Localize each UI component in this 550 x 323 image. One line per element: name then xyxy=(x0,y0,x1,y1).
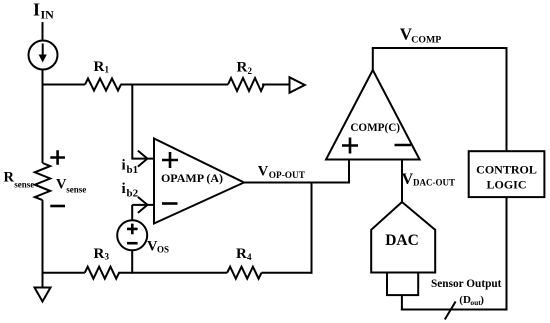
resistor R2 xyxy=(228,78,264,91)
wire: control logic down to sensor output xyxy=(506,197,508,310)
wire: feedback vertical (Vop-out to R4) xyxy=(311,182,313,274)
output arrow (buffer triangle) xyxy=(290,77,305,93)
svg-text:R: R xyxy=(4,170,15,186)
wire: opamp output xyxy=(244,182,349,184)
svg-text:Sensor Output: Sensor Output xyxy=(431,278,502,290)
svg-text:(D: (D xyxy=(459,294,471,306)
svg-text:V: V xyxy=(258,163,269,179)
wire: DAC output down xyxy=(401,295,403,310)
wire: Vos top to opamp - input xyxy=(132,205,154,222)
polarity minus (V_sense) xyxy=(50,205,65,208)
wire: R1 junction down to opamp + input xyxy=(132,84,154,159)
wire: sensor output bus xyxy=(401,309,508,311)
svg-text:I: I xyxy=(33,0,40,20)
DAC xyxy=(371,202,435,295)
arrow ib1 xyxy=(138,151,148,167)
svg-text:): ) xyxy=(480,294,484,306)
wire: comparator output xyxy=(372,48,374,71)
svg-text:V: V xyxy=(402,171,414,188)
polarity plus (V_sense) xyxy=(50,150,65,165)
svg-text:sense: sense xyxy=(66,185,86,195)
svg-text:1: 1 xyxy=(105,65,110,75)
svg-text:DAC: DAC xyxy=(385,232,419,249)
svg-text:DAC-OUT: DAC-OUT xyxy=(413,178,455,188)
svg-text:2: 2 xyxy=(248,66,253,76)
wire: top rail xyxy=(42,84,290,86)
wire: Rsense to bottom rail xyxy=(42,200,44,274)
svg-text:IN: IN xyxy=(41,8,55,22)
current source I_IN xyxy=(29,41,58,70)
resistor R4 xyxy=(227,267,261,279)
svg-text:COMP: COMP xyxy=(411,34,441,45)
bus slash xyxy=(445,302,456,320)
wire: current source to top rail junction, down to Rsense xyxy=(42,70,44,164)
svg-text:LOGIC: LOGIC xyxy=(486,177,526,191)
svg-text:CONTROL: CONTROL xyxy=(476,163,537,177)
svg-text:OP-OUT: OP-OUT xyxy=(269,171,306,181)
comparator C xyxy=(326,70,420,160)
svg-text:OS: OS xyxy=(157,245,169,255)
svg-text:i: i xyxy=(122,158,126,174)
wire: V_COMP to control logic xyxy=(372,48,507,152)
ground xyxy=(35,273,51,302)
svg-text:COMP(C): COMP(C) xyxy=(350,122,400,134)
svg-text:OPAMP (A): OPAMP (A) xyxy=(161,171,223,185)
wire: comparator minus input to DAC xyxy=(401,159,403,204)
svg-text:b2: b2 xyxy=(127,188,139,200)
wire: label to current source xyxy=(42,22,44,41)
wire: bottom rail xyxy=(43,272,313,274)
resistor R1 xyxy=(85,79,121,91)
svg-text:3: 3 xyxy=(105,251,110,261)
resistor R3 xyxy=(85,267,119,279)
control logic box xyxy=(469,151,545,197)
voltage source VOS xyxy=(117,220,147,250)
svg-text:i: i xyxy=(122,181,126,197)
svg-text:b1: b1 xyxy=(127,164,139,176)
arrow ib2 xyxy=(138,197,148,213)
wire: VOS to bottom rail xyxy=(131,250,133,273)
svg-text:R: R xyxy=(237,60,248,76)
svg-text:R: R xyxy=(94,246,105,262)
op-amp A xyxy=(154,139,244,224)
wire: comparator plus input xyxy=(348,159,350,184)
svg-text:R: R xyxy=(94,59,105,75)
svg-text:4: 4 xyxy=(247,252,252,262)
svg-text:R: R xyxy=(236,246,247,262)
resistor Rsense xyxy=(35,163,50,200)
svg-text:sense: sense xyxy=(14,179,34,189)
